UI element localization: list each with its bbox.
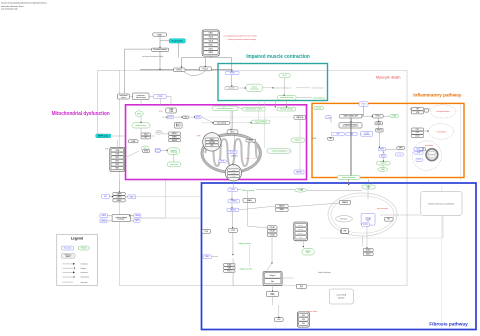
node contraction damage — [133, 93, 150, 100]
svg-text:necrosis: necrosis — [316, 107, 321, 109]
node chem a — [411, 128, 423, 131]
wire col down — [248, 191, 304, 318]
gene TGFBR — [228, 199, 240, 203]
node antiox stack a — [169, 132, 181, 135]
svg-text:process: process — [66, 256, 71, 258]
immune cell: T cell (dashed) — [428, 124, 453, 140]
node fibro right — [341, 229, 348, 234]
node bgn — [266, 291, 278, 296]
process necrosis — [314, 106, 324, 109]
nucleus-region line — [441, 238, 443, 330]
svg-text:SGCB: SGCB — [209, 41, 213, 43]
gene capn2 — [100, 219, 107, 223]
svg-text:MICU2: MICU2 — [176, 126, 181, 128]
node DAMPs — [340, 114, 362, 118]
svg-text:TLR2/4: TLR2/4 — [375, 116, 380, 118]
metabolite PGE2 — [378, 168, 388, 172]
svg-text:PPIF: PPIF — [210, 145, 213, 147]
wire smad move — [239, 185, 368, 210]
svg-text:Mitochondrial dysfunction: Mitochondrial dysfunction — [52, 111, 110, 117]
svg-text:PGE2: PGE2 — [381, 169, 385, 171]
svg-text:IL1B: IL1B — [416, 112, 419, 114]
svg-text:NCF2: NCF2 — [115, 161, 119, 163]
svg-text:LOX: LOX — [300, 286, 303, 288]
node stack r1 — [141, 133, 151, 136]
process biogenesis — [291, 138, 305, 142]
gene col nuc — [361, 214, 375, 226]
process low oxphos — [251, 120, 270, 123]
wire SR curve — [184, 71, 206, 76]
node lys stack a — [224, 263, 235, 266]
gene TNF — [332, 132, 345, 136]
svg-text:TGFB1: TGFB1 — [230, 189, 235, 191]
node sp1 — [384, 217, 393, 221]
gene RELA — [380, 155, 387, 158]
svg-text:SP1: SP1 — [387, 219, 390, 221]
svg-text:collagen I: collagen I — [269, 275, 276, 277]
wire nox row — [162, 117, 213, 122]
node ikk — [328, 137, 334, 140]
svg-text:TNF: TNF — [416, 108, 419, 110]
node smad stack a — [276, 204, 289, 207]
wire oxstress wires — [141, 116, 169, 136]
wire DGC to membrane — [182, 56, 232, 70]
svg-text:Sarcolemma damage: Sarcolemma damage — [154, 49, 167, 51]
gene IL6 — [361, 132, 373, 137]
svg-text:NOS2: NOS2 — [416, 149, 420, 151]
node oxphos box — [294, 115, 306, 119]
node sarcolemma instability — [152, 48, 169, 51]
svg-text:NCF1: NCF1 — [115, 157, 119, 159]
gene capn3 — [134, 214, 141, 218]
process myofibroblast — [302, 249, 314, 255]
svg-text:induced injury: induced injury — [136, 97, 146, 99]
gene capn1 — [100, 214, 108, 218]
gene SLC25A4 — [228, 150, 237, 153]
gene m1 b — [414, 151, 423, 154]
process muscle contraction — [246, 84, 263, 92]
svg-text:TGFBR1/2: TGFBR1/2 — [230, 201, 237, 203]
gene utrophin — [154, 95, 167, 99]
svg-text:Inflammatory pathway: Inflammatory pathway — [413, 93, 461, 98]
svg-text:MYD88: MYD88 — [376, 123, 381, 125]
node cybb label — [128, 140, 138, 143]
process sterile inflam — [390, 114, 398, 117]
svg-text:HMGB1: HMGB1 — [326, 117, 330, 119]
wire membrane damage down — [159, 51, 161, 70]
wire mito links — [221, 107, 242, 166]
svg-text:chemokines: chemokines — [363, 134, 370, 136]
svg-text:FN1: FN1 — [299, 237, 302, 239]
wire left drop to NADPH — [98, 70, 120, 134]
svg-text:ROS: ROS — [105, 149, 108, 151]
wire cell left edge drop — [113, 179, 120, 197]
node sarcomere — [225, 87, 238, 90]
wire fib spine1 — [212, 192, 233, 257]
organelle mitochondrion (large) — [201, 133, 262, 173]
node smad small — [341, 229, 349, 233]
node col stack b — [267, 230, 277, 233]
node ca pump — [174, 123, 182, 128]
node caspase stack b — [113, 196, 125, 199]
note box: ECM accumulation — [329, 289, 353, 304]
svg-text:CYBB: CYBB — [169, 111, 173, 113]
svg-text:O2: O2 — [185, 117, 187, 119]
region box: fibrosis pathway — [202, 183, 477, 330]
svg-text:CD68: CD68 — [417, 152, 421, 154]
svg-text:NFKB1: NFKB1 — [380, 149, 384, 151]
process mitochondrial damage — [277, 107, 296, 111]
node stack r3 — [143, 150, 150, 153]
svg-text:CYBB: CYBB — [115, 154, 119, 156]
complex mPTP — [203, 133, 221, 151]
node TNF out a — [411, 108, 423, 111]
complex procollagen — [294, 222, 308, 241]
node caspase stack c — [113, 199, 125, 202]
wire calpain wires — [107, 216, 134, 221]
svg-text:impaired OXPHOS: impaired OXPHOS — [255, 121, 267, 123]
node fibril bottom — [274, 318, 283, 322]
svg-text:NF-kB: NF-kB — [313, 138, 317, 140]
svg-text:biogenesis: biogenesis — [295, 140, 302, 142]
wire Ca down — [284, 78, 286, 96]
wire right fib — [363, 215, 444, 248]
svg-text:TNF: TNF — [336, 134, 339, 136]
gene border blue — [362, 223, 370, 226]
gene casp right — [128, 195, 136, 199]
process ECM remodeling — [294, 188, 306, 192]
node caspase stack a — [113, 192, 125, 195]
node chem c — [411, 135, 423, 138]
node ecm genes — [336, 216, 353, 222]
svg-text:DMD: DMD — [157, 34, 162, 36]
svg-text:ROS: ROS — [137, 113, 142, 115]
node calpain — [112, 215, 130, 222]
wire stress row — [130, 96, 171, 105]
svg-text:linking: linking — [270, 294, 274, 296]
node lys stack b — [224, 267, 235, 270]
channel TRPC1 — [174, 68, 186, 72]
svg-text:NCF4: NCF4 — [115, 164, 119, 166]
node ctgf2 — [229, 228, 237, 232]
process fission — [167, 162, 181, 167]
svg-text:NFE2L2: NFE2L2 — [172, 133, 178, 135]
node calcium uniporter — [214, 122, 230, 125]
gene mmp9 — [203, 255, 212, 259]
node nfkb target — [419, 148, 425, 151]
legend arrows — [63, 263, 88, 266]
node o2 — [183, 116, 189, 119]
process impaired dynamics — [267, 149, 291, 153]
process oxidative stress — [132, 123, 150, 128]
region box: mitochondrial dysfunction — [126, 105, 307, 180]
svg-text:FN1: FN1 — [367, 220, 370, 222]
svg-text:HMOX1: HMOX1 — [172, 140, 178, 142]
svg-text:Ca2+ overload: Ca2+ overload — [217, 122, 226, 124]
svg-text:SPP1: SPP1 — [399, 147, 403, 149]
legend metabolite — [78, 246, 89, 250]
process mito Ca overload — [242, 107, 265, 111]
legend gene product — [62, 246, 74, 250]
wire to weakness — [296, 97, 312, 99]
metabolite calcium — [279, 73, 290, 78]
wire mitophagy wires — [160, 150, 173, 162]
gene NFKB1 — [378, 148, 385, 151]
wire DMD down — [160, 36, 179, 57]
arrowheads at edge tips — [159, 47, 160, 48]
node dystrophin deficiency — [169, 39, 185, 43]
svg-text:CTGF: CTGF — [204, 231, 208, 233]
node TLR — [373, 114, 383, 118]
svg-text:CD163: CD163 — [417, 159, 421, 161]
process mitophagy — [167, 148, 179, 155]
wire magenta right — [279, 119, 300, 170]
node smad nuc — [339, 200, 350, 204]
wire membrane to RYR — [231, 70, 233, 87]
node acta2 b — [363, 252, 373, 255]
wire contraction to mito damage — [275, 100, 286, 107]
svg-text:DCN: DCN — [302, 323, 305, 325]
node tnf connector — [424, 109, 428, 112]
svg-text:Myocyte death: Myocyte death — [376, 75, 401, 79]
node left od a — [397, 146, 405, 149]
node mito top — [227, 130, 238, 134]
node mechanical stress — [117, 94, 129, 99]
svg-text:NOX4: NOX4 — [196, 117, 200, 119]
svg-text:mPTP: mPTP — [197, 136, 201, 138]
process TGFB secretion — [362, 185, 375, 189]
tissue boundary right — [460, 104, 462, 180]
svg-text:CYBB: CYBB — [131, 141, 135, 143]
svg-text:IL1B: IL1B — [350, 134, 353, 136]
myocyte cell boundary — [120, 70, 408, 285]
svg-text:POSTN: POSTN — [363, 224, 368, 226]
process inflammation label — [337, 176, 360, 180]
process cytokine release — [377, 161, 391, 165]
svg-text:CCN2: CCN2 — [231, 230, 235, 232]
wire cell bottom to octagon — [233, 245, 262, 286]
gene right lower — [294, 170, 304, 174]
svg-text:DCN: DCN — [277, 319, 280, 321]
gene SMAD23 — [227, 208, 239, 211]
wire calpain to fib — [125, 197, 201, 218]
wire bus down center — [232, 111, 234, 130]
metabolite H2O2 — [156, 131, 163, 135]
gene casp left — [102, 194, 110, 198]
immune cell: macrophage (dashed circle) — [412, 141, 441, 170]
node mito SOD2 — [246, 139, 256, 142]
metabolite superoxide — [141, 146, 149, 151]
gene NOX2 — [167, 115, 174, 118]
svg-text:TGFB1: TGFB1 — [397, 154, 401, 156]
gene nnos — [156, 149, 160, 152]
wire orange spine — [362, 105, 364, 114]
gene m1 a — [414, 148, 422, 151]
complex apoptosome — [225, 165, 241, 181]
region box: inflammatory pathway — [312, 103, 464, 177]
region box: impaired muscle contraction — [218, 64, 328, 101]
svg-text:TRPC1: TRPC1 — [176, 69, 182, 71]
gene TGFB1 node — [228, 188, 237, 192]
process impaired contraction — [277, 95, 296, 100]
wire contraction chain — [238, 87, 310, 89]
gene RYR1 — [226, 71, 240, 74]
wire pgc line — [202, 116, 294, 118]
node tgf left border — [202, 229, 211, 233]
legend process — [61, 253, 75, 258]
svg-text:Impaired muscle contraction: Impaired muscle contraction — [246, 54, 310, 60]
node MYD88 — [375, 122, 383, 125]
channel stretch — [199, 67, 211, 71]
complex NOX at sarcolemma — [110, 147, 125, 171]
svg-text:ECM genes: ECM genes — [340, 218, 348, 220]
svg-text:Duchenne muscular dystrophy: p: Duchenne muscular dystrophy: pathomechan… — [1, 2, 47, 5]
node col stack a — [267, 226, 277, 229]
complex ecm final — [297, 312, 309, 327]
svg-text:ECM: ECM — [302, 315, 305, 317]
svg-text:SOD2: SOD2 — [249, 140, 253, 142]
node antiox stack c — [169, 139, 181, 142]
svg-text:H2O2: H2O2 — [157, 132, 161, 134]
wire fib spine2 — [237, 185, 368, 190]
node cytokine note — [339, 123, 362, 128]
svg-text:SSPN: SSPN — [209, 52, 213, 54]
svg-text:NOX2: NOX2 — [168, 117, 172, 119]
svg-text:nNOS: nNOS — [156, 150, 159, 152]
svg-text:CXCL8: CXCL8 — [415, 136, 419, 138]
svg-text:UTRN: UTRN — [157, 96, 163, 98]
complex collagen fibril — [263, 271, 282, 285]
svg-text:ROS: ROS — [159, 111, 162, 113]
gene PRKN — [155, 149, 160, 153]
svg-text:P4HB: P4HB — [228, 267, 232, 269]
svg-text:CYCS: CYCS — [220, 161, 224, 163]
gene mito lower — [218, 160, 226, 163]
node smad co — [243, 198, 256, 202]
svg-text:XDH: XDH — [144, 134, 147, 136]
svg-text:Fibrosis pathway: Fibrosis pathway — [429, 321, 468, 327]
node chem b — [411, 131, 423, 134]
svg-text:NOS1: NOS1 — [144, 151, 148, 153]
node col stack c — [267, 233, 277, 236]
svg-text:muscle weakness: muscle weakness — [313, 97, 325, 99]
svg-text:Legend: Legend — [71, 237, 83, 241]
node smad stack b — [276, 208, 289, 211]
node lys stack c — [224, 270, 235, 273]
node stack r2 — [141, 136, 151, 139]
gene IL1B — [346, 132, 357, 136]
wire orange h1 — [331, 114, 390, 148]
svg-text:PLOD1: PLOD1 — [227, 270, 232, 272]
svg-text:LUM: LUM — [302, 319, 305, 321]
process reduced ATP production — [212, 106, 238, 111]
svg-text:Piezo1: Piezo1 — [203, 68, 209, 70]
node antiox stack b — [169, 135, 181, 138]
gene hmgb1 — [326, 116, 331, 119]
svg-text:CCL5: CCL5 — [416, 132, 420, 134]
wire orange h2 — [345, 109, 430, 168]
organelle nucleus (fibroblast) — [328, 193, 397, 236]
metabolite ROS — [135, 111, 143, 117]
node lox — [296, 284, 306, 288]
svg-text:CCL2: CCL2 — [416, 129, 420, 131]
svg-text:TLR4: TLR4 — [361, 104, 365, 106]
gene TLR4 on border — [359, 102, 368, 106]
sarcolemma membrane — [140, 69, 233, 71]
gene left od b — [396, 153, 404, 156]
node acta2 a — [363, 248, 373, 251]
complex DGC (dystrophin glycoprotein complex) — [202, 30, 219, 56]
node NOX complex label — [166, 108, 176, 113]
svg-text:contraction: contraction — [250, 87, 258, 90]
wire orange dark spine — [350, 118, 352, 179]
wire uniporter — [202, 122, 252, 124]
gene m2 — [416, 158, 422, 161]
wire left branch — [125, 49, 152, 93]
note box: myofibroblast activation — [421, 191, 462, 215]
wire mid drop — [141, 180, 166, 219]
node NADPH oxidase — [96, 134, 111, 138]
svg-text:muscular dystrophy model: muscular dystrophy model — [1, 7, 18, 10]
svg-text:No dystrophin: No dystrophin — [172, 40, 183, 43]
wire inflammation to fibrosis — [349, 179, 369, 185]
wire nadph wires — [111, 136, 139, 158]
svg-text:RYR1: RYR1 — [230, 73, 235, 75]
svg-text:⇅: ⇅ — [382, 152, 384, 155]
gene DMD — [153, 33, 167, 36]
svg-text:IKK: IKK — [329, 138, 331, 140]
svg-text:excessive ECM: excessive ECM — [337, 294, 347, 296]
wire caspase wires — [110, 195, 128, 197]
wire apoptosome down — [232, 180, 234, 188]
ECM boundary — [320, 186, 442, 238]
node TNF out b — [411, 111, 423, 114]
node IRAK — [376, 128, 383, 132]
macrophage cell body — [426, 149, 438, 161]
wire calcium down to mito — [259, 101, 265, 149]
legend box — [57, 234, 98, 285]
gene NOX4 — [195, 115, 201, 118]
gene cast — [134, 219, 140, 222]
immune cell: neutrophil (dashed) — [430, 105, 456, 118]
svg-text:MMP9: MMP9 — [205, 256, 209, 258]
